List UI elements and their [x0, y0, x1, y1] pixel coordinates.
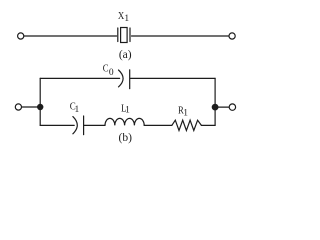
label X1 [118, 11, 129, 24]
inductor L1 [105, 118, 144, 125]
svg-text:1: 1 [183, 108, 188, 118]
resistor R1 [172, 120, 202, 130]
capacitor C1 [73, 116, 84, 135]
label C0 [103, 64, 114, 79]
junction node left [37, 104, 43, 110]
svg-text:C: C [103, 64, 109, 75]
label L1 [121, 103, 130, 115]
wire [144, 124, 172, 126]
svg-text:(a): (a) [119, 49, 132, 61]
wire [214, 78, 216, 125]
svg-text:(b): (b) [118, 132, 132, 144]
terminal right (b) [229, 104, 235, 110]
junction node right [212, 104, 219, 111]
terminal right (a) [229, 33, 235, 39]
wire [132, 35, 229, 37]
crystal X1 [118, 28, 130, 43]
label R1 [178, 106, 188, 119]
label C1 [70, 102, 80, 115]
svg-text:0: 0 [109, 68, 114, 78]
capacitor C0 [119, 70, 130, 89]
svg-text:1: 1 [124, 14, 129, 24]
wire [84, 124, 105, 126]
terminal left (a) [18, 33, 24, 39]
wire [130, 77, 215, 79]
svg-text:1: 1 [125, 106, 130, 116]
wire [24, 35, 116, 37]
wire [218, 106, 228, 108]
wire [40, 124, 74, 126]
terminal left (b) [15, 104, 21, 110]
wire [39, 78, 41, 125]
wire [22, 106, 38, 108]
svg-text:1: 1 [75, 105, 80, 115]
wire [40, 77, 119, 79]
wire [201, 124, 215, 126]
